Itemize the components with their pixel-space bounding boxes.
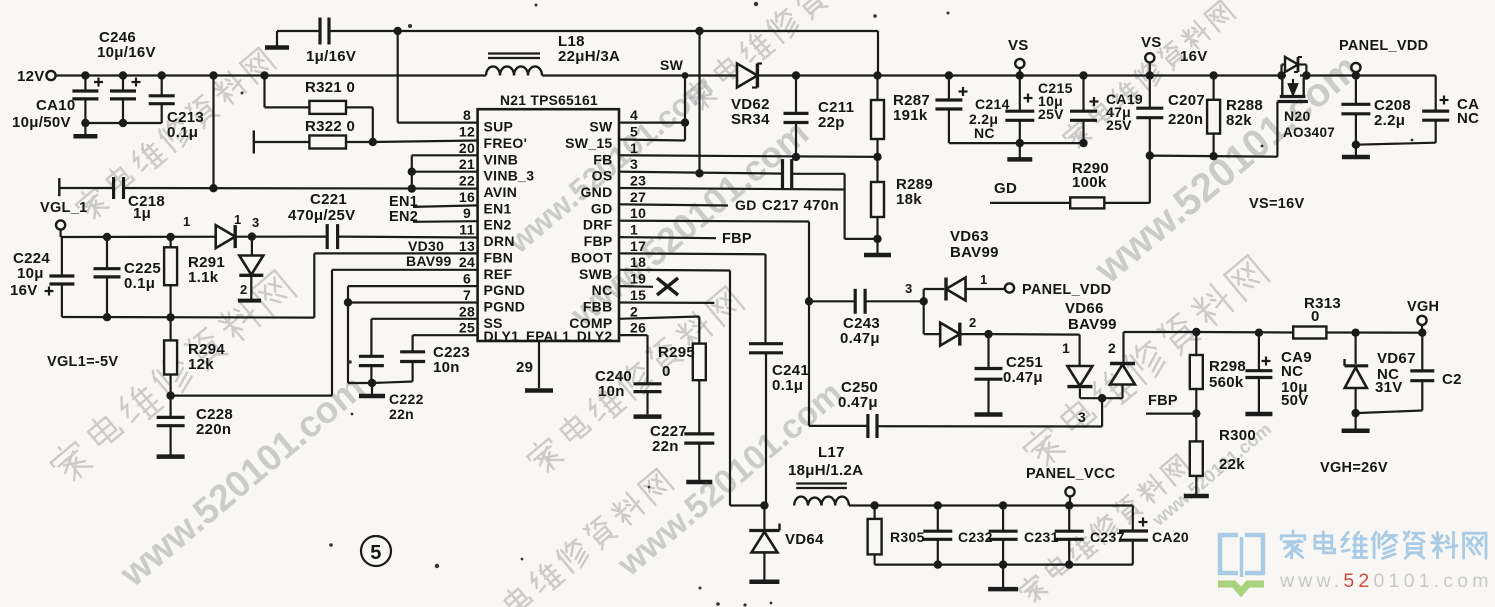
svg-text:5: 5 (370, 542, 381, 564)
svg-text:R305: R305 (890, 529, 925, 545)
svg-text:11: 11 (459, 222, 474, 238)
svg-text:10μ/50V: 10μ/50V (12, 114, 71, 131)
svg-text:SR34: SR34 (731, 111, 770, 128)
svg-text:FB: FB (593, 151, 612, 167)
svg-text:10μ/16V: 10μ/16V (97, 44, 156, 61)
svg-text:1: 1 (183, 214, 191, 229)
svg-text:EN1: EN1 (484, 200, 512, 216)
svg-text:GND: GND (580, 184, 612, 200)
svg-text:3: 3 (1078, 409, 1086, 425)
svg-text:1: 1 (234, 212, 242, 227)
svg-text:9: 9 (463, 205, 471, 221)
svg-text:17: 17 (630, 238, 646, 254)
svg-text:BAV99: BAV99 (406, 253, 452, 269)
svg-text:R321 0: R321 0 (305, 79, 355, 96)
svg-text:SW: SW (660, 57, 684, 73)
svg-text:GD: GD (591, 200, 613, 216)
svg-text:15: 15 (630, 287, 646, 303)
svg-text:1: 1 (980, 272, 988, 287)
svg-text:FREO': FREO' (484, 135, 528, 151)
svg-text:28: 28 (459, 303, 475, 319)
svg-text:C237: C237 (1090, 529, 1125, 545)
svg-text:13: 13 (459, 238, 475, 254)
svg-text:DRF: DRF (583, 217, 613, 233)
svg-text:R313: R313 (1304, 295, 1341, 312)
svg-text:C221: C221 (310, 191, 347, 208)
svg-text:1.1k: 1.1k (188, 269, 219, 286)
svg-text:26: 26 (630, 320, 646, 336)
svg-text:DLY1: DLY1 (484, 328, 520, 344)
svg-text:OS: OS (592, 168, 613, 184)
svg-text:VINB_3: VINB_3 (484, 168, 535, 184)
svg-text:SUP: SUP (484, 119, 514, 135)
svg-text:VGL_1: VGL_1 (40, 200, 87, 216)
svg-text:18μH/1.2A: 18μH/1.2A (788, 462, 863, 479)
svg-text:10n: 10n (598, 383, 625, 400)
svg-text:GD: GD (735, 197, 757, 213)
svg-text:PANEL_VDD: PANEL_VDD (1022, 282, 1111, 298)
svg-text:FBB: FBB (583, 299, 613, 315)
svg-text:EN2: EN2 (484, 217, 512, 233)
svg-text:27: 27 (630, 189, 646, 205)
svg-text:R322 0: R322 0 (305, 118, 355, 135)
svg-text:VD30: VD30 (408, 238, 444, 254)
svg-text:N21 TPS65161: N21 TPS65161 (500, 93, 598, 108)
svg-text:R295: R295 (658, 344, 695, 361)
svg-text:www.520101.com: www.520101.com (1279, 570, 1493, 592)
svg-text:2: 2 (240, 282, 248, 297)
svg-text:FBP: FBP (722, 231, 752, 247)
svg-text:18k: 18k (896, 191, 922, 208)
svg-text:1: 1 (1062, 340, 1070, 356)
svg-text:C222: C222 (389, 391, 424, 407)
svg-text:2: 2 (969, 315, 977, 330)
svg-text:7: 7 (463, 287, 471, 303)
svg-text:5: 5 (630, 123, 638, 139)
svg-text:0.1μ: 0.1μ (772, 377, 803, 394)
svg-text:10: 10 (630, 205, 646, 221)
svg-text:REF: REF (484, 266, 513, 282)
svg-text:12V: 12V (17, 68, 45, 85)
svg-text:C217 470n: C217 470n (762, 197, 839, 214)
svg-text:12k: 12k (188, 356, 214, 373)
svg-text:FBP: FBP (584, 233, 613, 249)
svg-text:25V: 25V (1038, 106, 1064, 122)
svg-text:0.47μ: 0.47μ (840, 330, 880, 347)
svg-text:4: 4 (630, 107, 638, 123)
svg-text:AVIN: AVIN (484, 184, 518, 200)
svg-text:NC: NC (1457, 110, 1479, 127)
svg-text:220n: 220n (1168, 111, 1203, 128)
svg-text:16V: 16V (10, 282, 38, 299)
svg-text:18: 18 (630, 254, 646, 270)
svg-text:1μ/16V: 1μ/16V (306, 48, 356, 65)
svg-text:29: 29 (516, 359, 533, 376)
svg-text:C207: C207 (1168, 92, 1205, 109)
svg-text:0: 0 (1311, 308, 1320, 325)
svg-text:DLY2: DLY2 (577, 328, 613, 344)
svg-text:VD67: VD67 (1377, 350, 1416, 367)
svg-text:22k: 22k (1219, 456, 1245, 473)
svg-text:2: 2 (630, 303, 638, 319)
svg-text:VGH=26V: VGH=26V (1320, 460, 1388, 476)
svg-text:25V: 25V (1106, 117, 1132, 133)
svg-text:22: 22 (459, 173, 475, 189)
svg-text:2.2μ: 2.2μ (1374, 112, 1405, 129)
svg-text:NC: NC (1281, 363, 1303, 380)
svg-text:191k: 191k (893, 107, 928, 124)
svg-text:0.47μ: 0.47μ (838, 394, 878, 411)
svg-text:PGND: PGND (484, 299, 526, 315)
svg-text:CA20: CA20 (1152, 529, 1189, 545)
svg-text:3: 3 (630, 156, 638, 172)
svg-text:1: 1 (630, 140, 638, 156)
svg-text:PGND: PGND (484, 282, 526, 298)
svg-text:23: 23 (630, 173, 646, 189)
svg-text:220n: 220n (196, 421, 231, 438)
svg-text:GD: GD (994, 180, 1017, 197)
svg-text:PANEL_VCC: PANEL_VCC (1026, 466, 1116, 482)
svg-text:SWB: SWB (579, 266, 613, 282)
svg-text:6: 6 (463, 271, 471, 287)
svg-text:2: 2 (1108, 340, 1116, 356)
svg-text:12: 12 (459, 123, 475, 139)
svg-text:560k: 560k (1209, 374, 1244, 391)
svg-text:24: 24 (459, 254, 475, 270)
svg-text:8: 8 (463, 107, 471, 123)
svg-text:SW: SW (589, 119, 613, 135)
svg-text:N20: N20 (1284, 108, 1311, 124)
svg-text:L17: L17 (818, 444, 845, 461)
svg-text:FBP: FBP (1148, 393, 1178, 409)
svg-text:31V: 31V (1375, 379, 1403, 396)
svg-text:VINB: VINB (484, 151, 519, 167)
svg-text:NC: NC (974, 125, 995, 141)
svg-text:10μ: 10μ (17, 265, 44, 282)
svg-text:VD64: VD64 (785, 531, 824, 548)
svg-text:R300: R300 (1219, 427, 1256, 444)
svg-text:FBN: FBN (484, 249, 514, 265)
svg-text:3: 3 (905, 281, 913, 296)
svg-text:CA10: CA10 (36, 97, 76, 114)
svg-text:3: 3 (252, 215, 260, 230)
svg-text:C231: C231 (1024, 529, 1059, 545)
svg-text:AO3407: AO3407 (1283, 125, 1335, 140)
svg-text:NC: NC (592, 282, 613, 298)
svg-text:BOOT: BOOT (571, 249, 613, 265)
svg-text:21: 21 (459, 156, 475, 172)
svg-text:EPAL1: EPAL1 (526, 329, 570, 344)
svg-text:VD66: VD66 (1065, 300, 1104, 317)
svg-text:22p: 22p (818, 114, 845, 131)
svg-text:25: 25 (459, 320, 475, 336)
svg-text:0: 0 (662, 363, 671, 380)
svg-text:1: 1 (630, 222, 638, 238)
svg-text:16V: 16V (1180, 48, 1208, 65)
svg-text:VGL1=-5V: VGL1=-5V (47, 354, 118, 370)
svg-text:0.47μ: 0.47μ (1003, 369, 1043, 386)
svg-text:SW_15: SW_15 (565, 135, 612, 151)
svg-text:VD63: VD63 (950, 228, 989, 245)
svg-text:100k: 100k (1072, 174, 1107, 191)
svg-text:R298: R298 (1209, 358, 1246, 375)
svg-text:VS: VS (1008, 37, 1029, 54)
svg-text:22μH/3A: 22μH/3A (558, 48, 620, 65)
svg-text:0.1μ: 0.1μ (124, 275, 155, 292)
svg-text:BAV99: BAV99 (950, 244, 999, 261)
svg-text:C2: C2 (1442, 371, 1462, 388)
svg-text:22n: 22n (652, 438, 679, 455)
svg-text:470μ/25V: 470μ/25V (288, 207, 355, 224)
svg-text:10n: 10n (433, 359, 460, 376)
svg-text:C232: C232 (958, 529, 993, 545)
svg-text:22n: 22n (389, 406, 414, 422)
svg-text:C214: C214 (975, 96, 1010, 112)
svg-text:20: 20 (459, 140, 475, 156)
svg-text:1μ: 1μ (133, 205, 151, 222)
svg-text:82k: 82k (1226, 112, 1252, 129)
svg-text:PANEL_VDD: PANEL_VDD (1339, 38, 1428, 54)
svg-text:VS: VS (1141, 34, 1162, 51)
svg-text:0.1μ: 0.1μ (167, 124, 198, 141)
svg-text:VGH: VGH (1407, 299, 1439, 315)
svg-text:DRN: DRN (484, 233, 515, 249)
svg-text:50V: 50V (1281, 392, 1309, 409)
svg-text:BAV99: BAV99 (1068, 316, 1117, 333)
svg-text:19: 19 (630, 271, 646, 287)
svg-text:VS=16V: VS=16V (1249, 196, 1304, 212)
svg-text:16: 16 (459, 189, 475, 205)
